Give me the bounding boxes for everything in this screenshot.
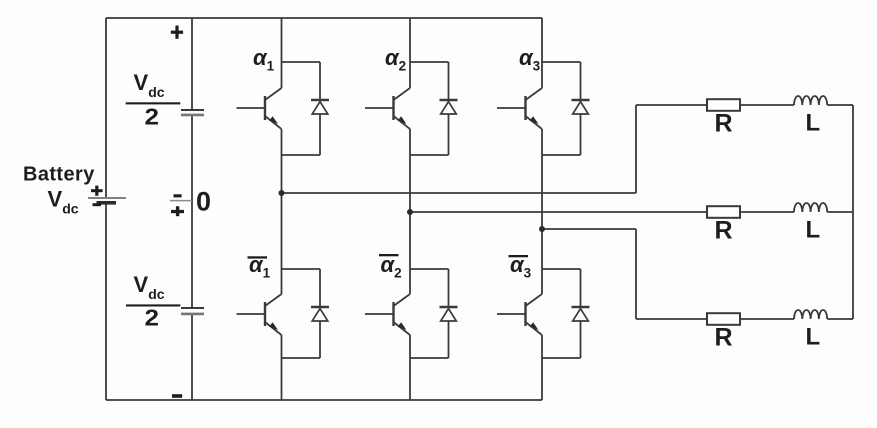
wire leg2 rail bottom [409, 335, 411, 400]
label alpha3-bar [509, 252, 532, 281]
wire left rail upper segment [105, 18, 107, 197]
svg-text:R: R [715, 217, 733, 245]
wire leg3 top-switch emitter tie [542, 154, 581, 156]
battery BT1 negative plate [97, 201, 117, 205]
diode D4 [440, 269, 458, 358]
inductor L (phase C) [794, 310, 827, 319]
wire leg3 rail bottom [541, 335, 543, 400]
battery minus sign [93, 203, 102, 206]
inductor L (phase B) [794, 203, 827, 212]
wire phase C branch lead [636, 318, 707, 320]
diode D6 [572, 269, 590, 358]
wire leg2 bottom-switch collector tie [410, 268, 449, 270]
wire leg2 bottom-switch emitter tie [410, 357, 449, 359]
svg-text:α2: α2 [385, 45, 406, 74]
wire phase C output [542, 228, 636, 230]
diode D3 [440, 62, 458, 155]
wire phase C dropper [635, 229, 637, 319]
wire capacitor rail upper [191, 18, 193, 109]
inductor L (phase A) [794, 96, 827, 105]
svg-text:2: 2 [145, 104, 160, 130]
label Vdc/2 upper [126, 70, 181, 130]
svg-text:α1: α1 [249, 252, 271, 281]
label alpha1-bar [248, 252, 271, 281]
wire leg1 top-switch emitter tie [282, 154, 321, 156]
wire phase C branch tail [827, 318, 853, 320]
svg-text:R: R [715, 324, 733, 352]
diode D2 [311, 269, 329, 358]
label Vdc/2 lower [126, 272, 180, 331]
transistor Q1 [237, 88, 282, 129]
wire phase A branch tail [827, 104, 853, 106]
wire leg2 top-switch emitter tie [410, 154, 449, 156]
svg-text:α1: α1 [253, 45, 275, 74]
wire leg1 bottom-switch collector tie [282, 268, 321, 270]
wire phase A riser [635, 105, 637, 193]
wire leg3 bottom-switch collector tie [542, 268, 581, 270]
wire phase A branch lead [636, 104, 707, 106]
wire capacitor rail lower [191, 315, 193, 400]
node phase A junction [279, 190, 285, 196]
svg-text:Vdc: Vdc [134, 70, 165, 100]
transistor Q2 [237, 294, 282, 335]
svg-text:Vdc: Vdc [134, 272, 165, 302]
wire bottom DC bus [106, 399, 542, 401]
wire phase A R-L link [740, 104, 794, 106]
node phase B junction [407, 209, 413, 215]
capacitor C1 bottom plate [181, 114, 204, 117]
resistor R (phase B) [707, 206, 740, 218]
wire leg1 top-switch collector tie [282, 61, 321, 63]
node phase C junction [539, 226, 545, 232]
minus sign mid (above 0) [174, 194, 182, 197]
svg-text:L: L [806, 110, 821, 137]
wire leg1 rail bottom [281, 335, 283, 400]
transistor Q6 [497, 294, 542, 335]
wire leg3 rail mid [541, 129, 543, 294]
wire leg3 rail top [541, 18, 543, 88]
wire leg2 rail top [409, 18, 411, 88]
battery BT1 positive plate [88, 197, 126, 199]
transistor Q3 [365, 88, 410, 129]
wire phase B output [410, 211, 707, 213]
minus sign bottom rail [172, 394, 182, 398]
capacitor C2 top plate [181, 307, 204, 309]
plus sign top rail [171, 26, 183, 39]
capacitor C1 top plate [181, 109, 204, 111]
resistor R (phase A) [707, 99, 740, 111]
transistor Q5 [497, 88, 542, 129]
label alpha2-bar [379, 252, 402, 281]
wire leg1 bottom-switch emitter tie [282, 357, 321, 359]
svg-text:L: L [806, 217, 821, 244]
wire phase B branch tail [827, 211, 853, 213]
svg-text:Battery: Battery [23, 164, 95, 186]
diode D1 [311, 62, 329, 155]
svg-text:Vdc: Vdc [48, 187, 79, 217]
wire capacitor rail middle [191, 116, 193, 308]
wire leg2 rail mid [409, 129, 411, 294]
wire leg1 rail mid [281, 129, 283, 294]
wire phase A output [282, 192, 637, 194]
svg-text:0: 0 [196, 187, 211, 217]
wire leg2 top-switch collector tie [410, 61, 449, 63]
transistor Q4 [365, 294, 410, 335]
wire left rail lower segment [105, 205, 107, 401]
plus sign mid (below 0) [171, 206, 184, 216]
node 0 tick [170, 200, 192, 202]
svg-text:R: R [715, 110, 733, 138]
wire leg1 rail top [281, 18, 283, 88]
resistor R (phase C) [707, 313, 740, 325]
svg-text:α3: α3 [510, 252, 532, 281]
wire leg3 bottom-switch emitter tie [542, 357, 581, 359]
battery plus sign [91, 186, 103, 196]
wire phase C R-L link [740, 318, 794, 320]
svg-text:L: L [806, 324, 821, 351]
wire load return rail [852, 105, 854, 319]
svg-text:α3: α3 [519, 45, 541, 74]
wire leg3 top-switch collector tie [542, 61, 581, 63]
wire phase B R-L link [740, 211, 794, 213]
capacitor C2 bottom plate [181, 313, 204, 316]
svg-text:2: 2 [145, 305, 160, 331]
wire top DC bus [106, 17, 542, 19]
diode D5 [572, 62, 590, 155]
